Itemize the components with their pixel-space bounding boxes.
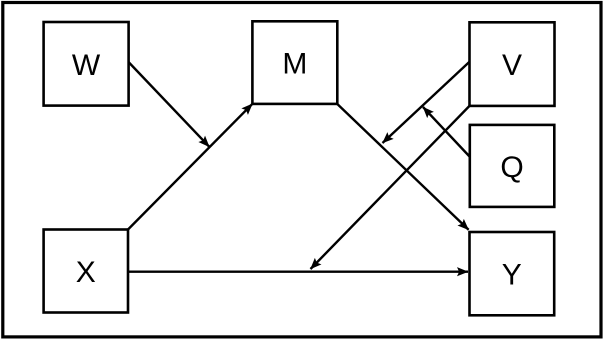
wire: arrow W to X-M path <box>129 62 210 147</box>
node Y box <box>470 232 555 315</box>
wire: arrow M to Y <box>337 104 468 230</box>
wire: arrow Q to V arrow line <box>423 107 470 157</box>
svg-text:W: W <box>72 49 101 82</box>
svg-text:Q: Q <box>500 151 523 184</box>
node V box <box>470 22 555 106</box>
node M box <box>252 21 337 104</box>
wire: arrow V to M-Y path <box>383 62 470 143</box>
wire: arrow X to M <box>128 104 252 230</box>
node Q box <box>470 125 555 207</box>
node X box <box>44 230 128 313</box>
wire: arrow V to X-Y path <box>311 106 470 269</box>
svg-text:M: M <box>282 48 307 81</box>
svg-text:X: X <box>76 256 96 289</box>
wire: arrow X to Y <box>128 271 468 273</box>
svg-text:V: V <box>502 49 522 82</box>
svg-text:Y: Y <box>502 259 522 292</box>
node W box <box>44 22 129 106</box>
